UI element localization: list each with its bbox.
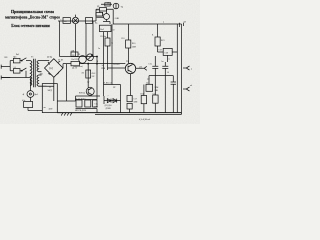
wire row y96 bbox=[76, 96, 101, 101]
wire v x128 bbox=[128, 24, 130, 63]
bottom bus main bbox=[57, 112, 181, 114]
capacitor C21 bbox=[153, 95, 158, 103]
wire mains top bbox=[10, 60, 13, 62]
bottom bus second bbox=[95, 113, 182, 115]
module box bbox=[42, 84, 57, 113]
wire row y101 bbox=[57, 100, 75, 102]
regulator circle with arrow bbox=[87, 54, 94, 61]
wire cluster tick bbox=[97, 11, 104, 17]
wire from box bbox=[104, 32, 108, 96]
resistor R11 bbox=[100, 8, 107, 11]
box Vk2 bbox=[100, 25, 112, 31]
transistor T6 bbox=[125, 63, 135, 73]
wire x120 bbox=[120, 85, 122, 113]
bus end ticks bbox=[179, 23, 183, 27]
diode D16 bbox=[85, 100, 91, 107]
wire row y84.5 bbox=[104, 84, 121, 86]
contact pin a bbox=[183, 66, 190, 70]
transformer primary winding bbox=[30, 61, 32, 86]
wire row y99.5 bbox=[76, 99, 98, 101]
transistor T2 top cluster bbox=[104, 14, 110, 20]
bridge output wire bbox=[63, 64, 71, 68]
wire top bus left bbox=[58, 20, 96, 22]
motor M1 bbox=[29, 86, 31, 102]
capacitor C20 bbox=[158, 46, 164, 52]
fuse Пр1 bbox=[13, 58, 20, 63]
switch Вк5 upper bbox=[20, 58, 30, 61]
transformer secondary 2 bbox=[37, 75, 47, 86]
bridge rectifier VD1-VD4 bbox=[45, 59, 64, 78]
resistor R15 bbox=[105, 38, 110, 46]
wire below T6 bbox=[130, 74, 132, 96]
resistor R10 bbox=[105, 3, 110, 6]
capacitor C15 bbox=[93, 100, 97, 107]
bridge top lead bbox=[47, 61, 54, 102]
wire to bus bbox=[129, 109, 131, 113]
wire vertical v1 bbox=[59, 21, 61, 57]
capacitor C13 motor bbox=[24, 102, 33, 108]
diode D7 bbox=[76, 100, 82, 107]
junction bbox=[88, 63, 89, 64]
resistor R22 bbox=[86, 70, 91, 78]
wire row y56 bbox=[60, 56, 98, 58]
wire vertical v4 bbox=[92, 21, 94, 57]
capacitor C24 bbox=[171, 76, 176, 113]
lamp HL1 bbox=[72, 17, 78, 23]
switch SB1 bbox=[63, 18, 70, 24]
head circle B1 bbox=[79, 56, 87, 64]
wire top bus right bbox=[113, 23, 182, 25]
wire v x88 bbox=[87, 64, 89, 88]
resistor R16 bbox=[126, 40, 131, 48]
capacitor C22 bbox=[152, 56, 158, 95]
wire mains bottom bbox=[2, 78, 30, 86]
resistor R24 bbox=[141, 96, 146, 104]
relay K1 box bbox=[71, 52, 78, 57]
wire x104 bbox=[103, 96, 105, 104]
resistor R12 bbox=[96, 13, 103, 16]
transformer secondary 1 bbox=[37, 61, 47, 72]
switch SB2 bbox=[86, 18, 93, 24]
wire v x112 bbox=[108, 24, 126, 85]
wire h y75 bbox=[149, 76, 173, 84]
transistor T3 top cluster bbox=[113, 3, 119, 9]
wire row y108.5 bbox=[76, 109, 98, 113]
resistor R19 bbox=[157, 24, 159, 37]
wire v x107 bbox=[107, 46, 109, 70]
wire long vertical right 1 bbox=[176, 24, 178, 113]
wire cluster bbox=[96, 3, 116, 24]
fuse Пр2 bbox=[13, 69, 20, 74]
transformer core bbox=[34, 59, 36, 87]
ground hatch bbox=[61, 113, 72, 116]
capacitor C17 bbox=[127, 96, 132, 102]
wire x97 bbox=[96, 57, 98, 100]
wire bridge bottom to bus bbox=[66, 64, 68, 102]
contact pin b bbox=[183, 87, 190, 91]
capacitor C23 bbox=[162, 62, 168, 113]
transistor T7 bbox=[86, 87, 94, 95]
wire vertical v3 bbox=[85, 23, 87, 56]
wire mains vertical bbox=[9, 61, 11, 67]
wire output continue bbox=[79, 63, 125, 65]
wire vertical v2 bbox=[75, 24, 77, 57]
wire long vertical right 2 bbox=[181, 24, 183, 113]
stabilizer box D21 bbox=[146, 84, 153, 91]
diode D13 bbox=[104, 99, 121, 103]
resistor R21 bbox=[71, 61, 79, 65]
